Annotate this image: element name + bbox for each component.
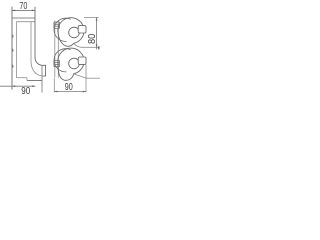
lower inner crescent (54, 49, 71, 72)
lower unit tray line (74, 74, 87, 78)
dim 90 right arrows (54, 91, 86, 93)
dim 90 right line (54, 91, 86, 93)
front edge (34, 7, 36, 58)
lower bracket (54, 60, 60, 66)
cropped dim marks right (98, 46, 100, 49)
dim 90 left arrows (12, 85, 35, 87)
svg-text:90: 90 (21, 86, 30, 97)
knob right extension (85, 65, 87, 93)
left view top edge (12, 17, 35, 19)
inner wall line (30, 22, 32, 62)
rail bottom extension (53, 78, 55, 92)
lower unit body (58, 48, 84, 80)
upper inner circle (69, 27, 80, 38)
bottom step horizontal (16, 77, 27, 79)
bottom step vertical (26, 78, 28, 81)
left view lid inner line (16, 21, 35, 23)
dim 80 line (96, 18, 98, 50)
back plate inner line (15, 22, 17, 78)
upper bracket (54, 22, 60, 28)
dim 90 left line (0, 85, 35, 87)
lower knob (78, 57, 86, 64)
spout foot (42, 65, 46, 76)
outer lip curve (35, 58, 42, 65)
dim 70 line (12, 9, 35, 11)
dim 80 arrows (96, 18, 98, 48)
foot extension line (41, 65, 43, 92)
back plate hook bumps (12, 35, 13, 68)
left view back plate left edge (11, 7, 13, 90)
dim 70 arrows (12, 10, 35, 12)
upper unit spout line (74, 43, 99, 47)
inner lip curve (31, 62, 42, 76)
svg-text:80: 80 (87, 33, 98, 44)
rail right line (57, 21, 59, 78)
bottom edge (27, 79, 42, 81)
dim 80 top extension (84, 17, 99, 19)
upper unit body (58, 18, 84, 47)
svg-text:90: 90 (65, 82, 73, 93)
upper inner crescent (54, 18, 71, 41)
upper knob (78, 26, 86, 33)
rail left line (54, 21, 56, 78)
bottom right extension (86, 77, 100, 79)
lower inner circle (69, 58, 80, 69)
